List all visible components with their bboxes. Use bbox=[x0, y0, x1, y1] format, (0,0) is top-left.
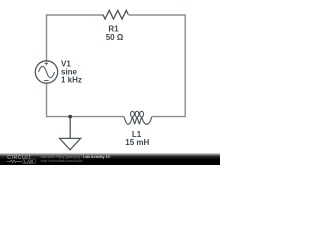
svg-text:50 Ω: 50 Ω bbox=[106, 33, 124, 42]
voltage source V1 minus sign bbox=[44, 80, 49, 82]
wire: source top to resistor left bbox=[47, 15, 104, 61]
wire: resistor right to inductor right bbox=[129, 15, 186, 117]
inductor L1 coil bbox=[124, 111, 152, 124]
svg-text:R1: R1 bbox=[108, 24, 119, 33]
ground symbol triangle bbox=[60, 138, 81, 149]
footer black bar bbox=[0, 153, 220, 165]
svg-text:15 mH: 15 mH bbox=[125, 138, 149, 147]
svg-text:LAB: LAB bbox=[24, 159, 33, 164]
ground stub wire bbox=[69, 117, 71, 139]
CircuitLab logo word LAB bbox=[23, 159, 35, 164]
voltage source V1 sine wave bbox=[39, 66, 55, 78]
voltage source V1 circle bbox=[35, 61, 57, 83]
wire: inductor left to source bottom bbox=[47, 83, 125, 116]
logo resistor squiggle bbox=[6, 160, 22, 163]
svg-text:http://circuitlab.com/c/j4a: http://circuitlab.com/c/j4a bbox=[41, 159, 84, 163]
svg-text:1 kHz: 1 kHz bbox=[61, 75, 82, 84]
voltage source V1 plus sign bbox=[45, 62, 48, 65]
junction node dot bbox=[68, 115, 72, 119]
resistor R1 bbox=[103, 10, 128, 19]
